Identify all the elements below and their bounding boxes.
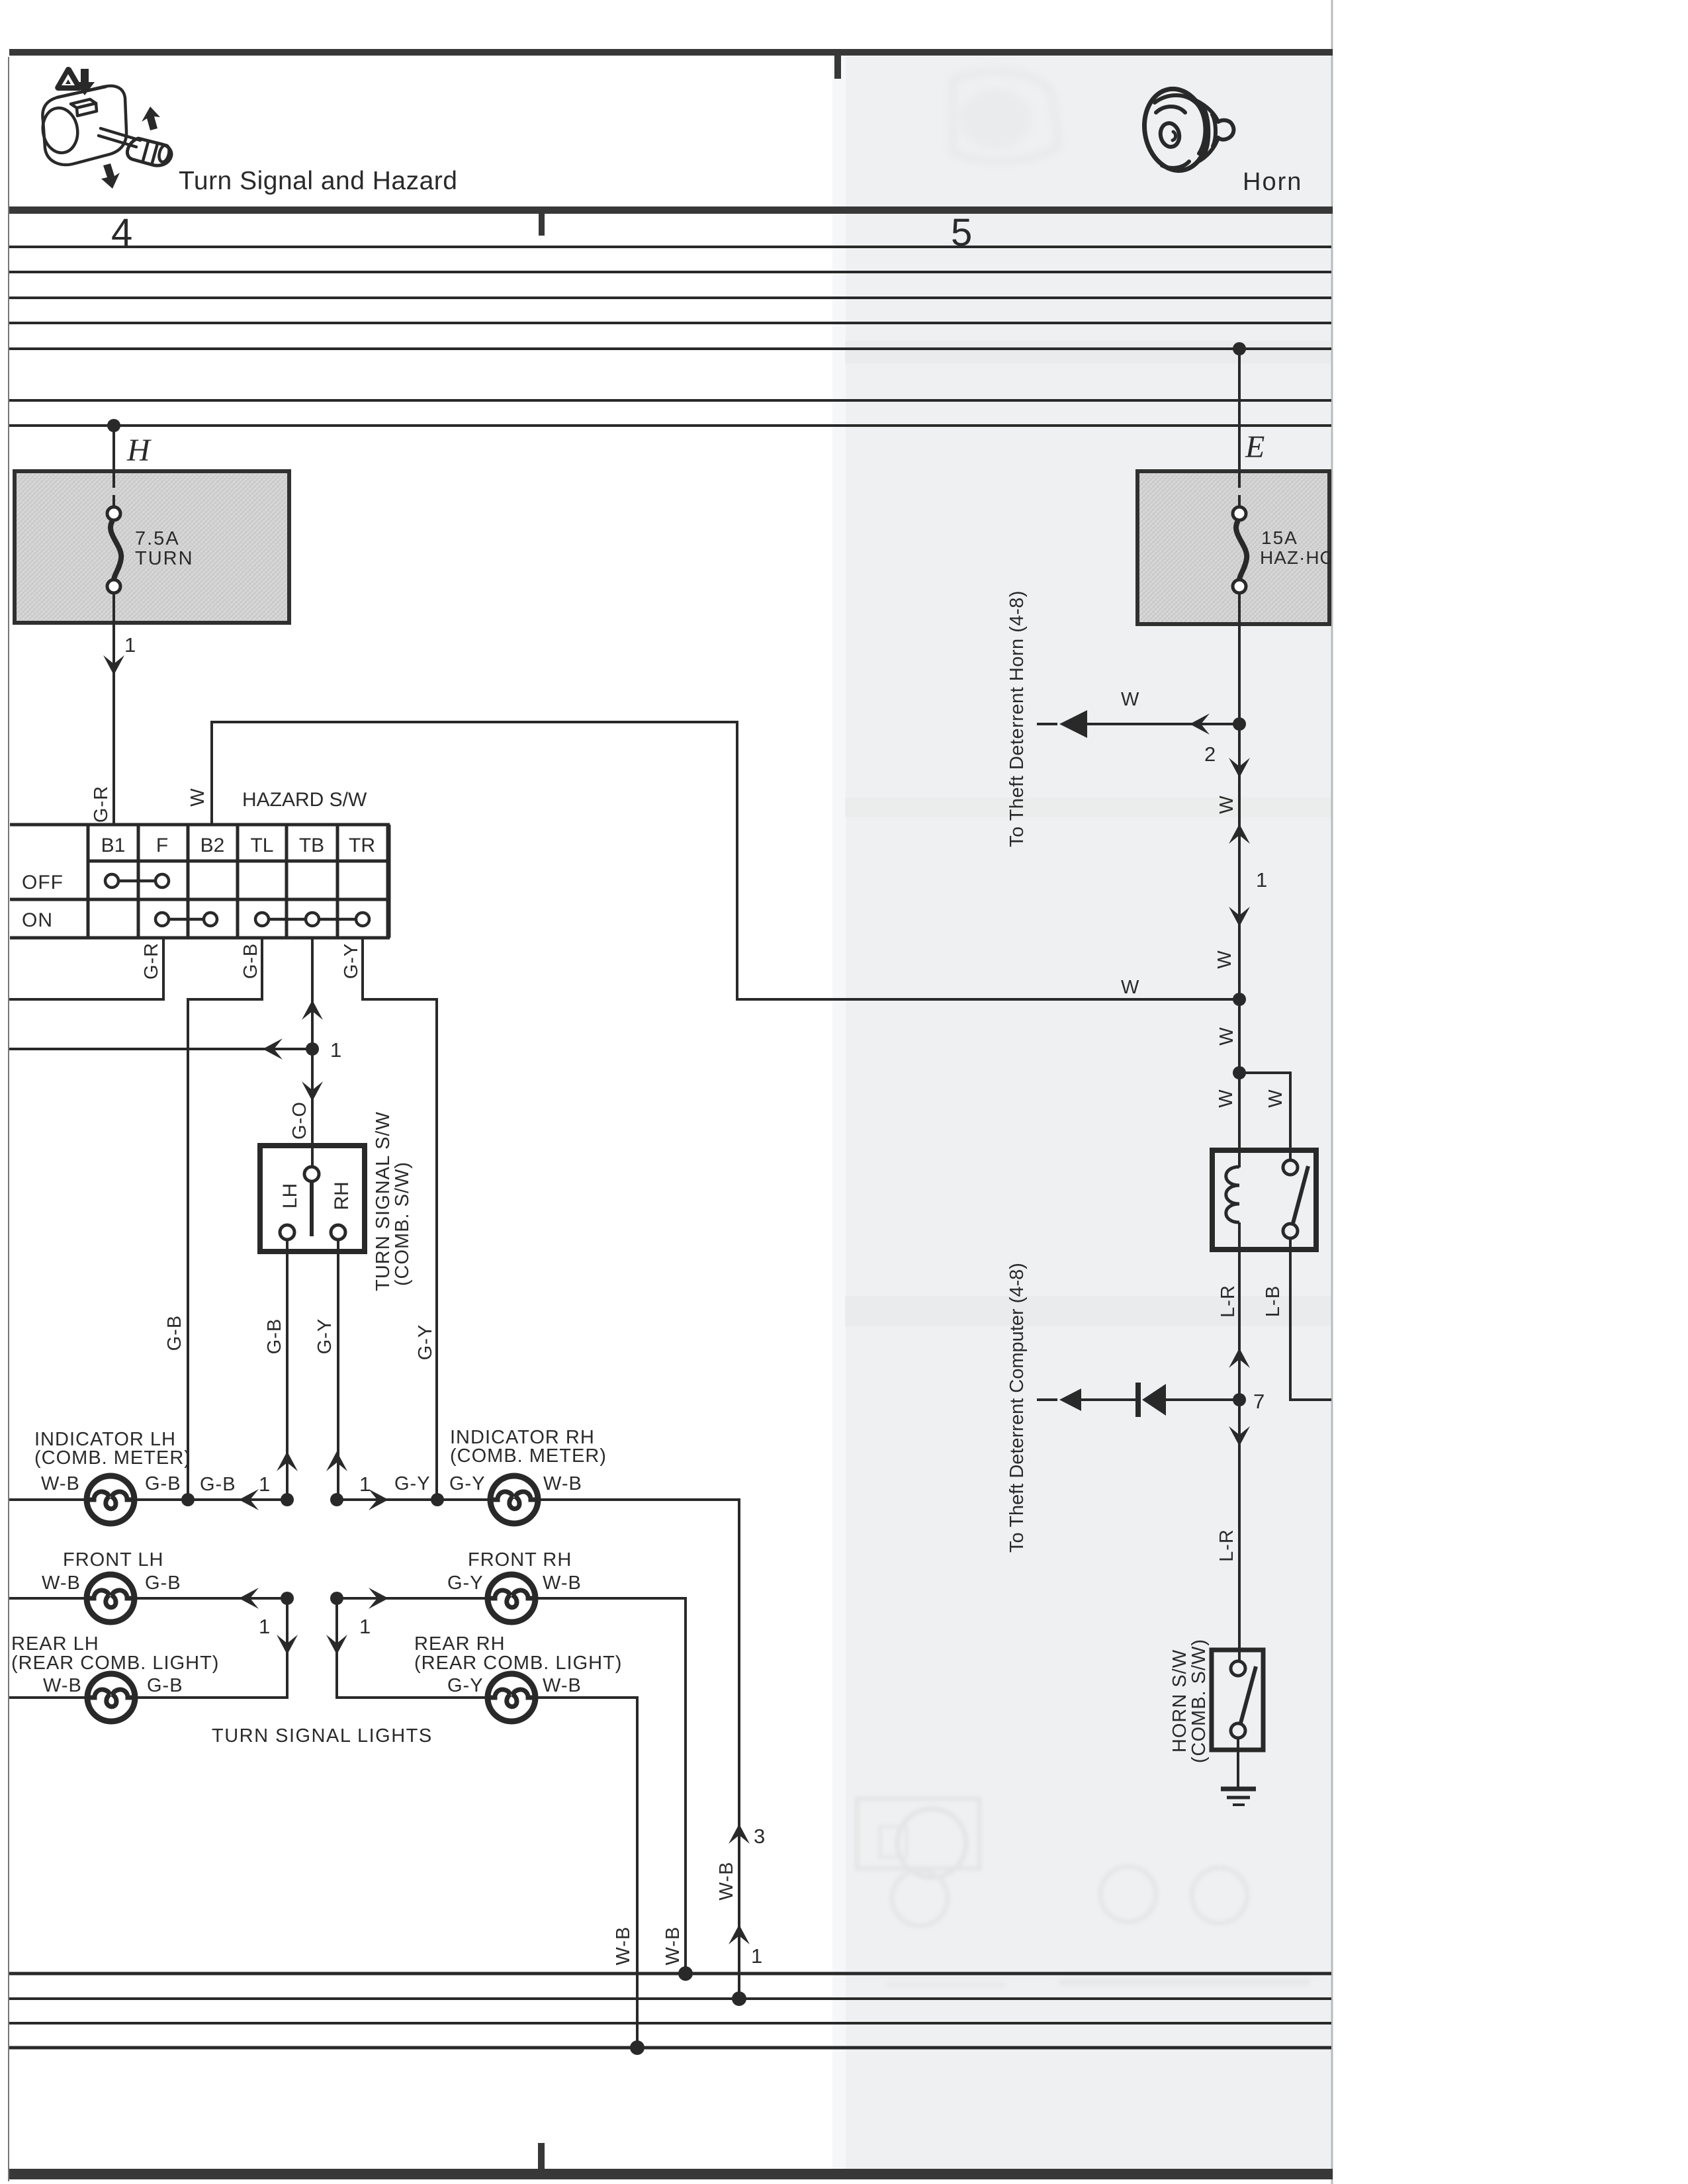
hazard switch OFF row contacts B1-F [105, 874, 169, 887]
svg-text:2: 2 [1204, 743, 1216, 766]
svg-text:TURN SIGNAL LIGHTS: TURN SIGNAL LIGHTS [212, 1725, 433, 1747]
wire node H to fuse TURN [112, 426, 115, 473]
turn signal switch RH contact [331, 1225, 345, 1240]
svg-text:REAR RH: REAR RH [414, 1633, 506, 1655]
svg-text:1: 1 [259, 1615, 270, 1638]
header bar (second rule) [9, 206, 1333, 214]
wire G-B from pin TL jogging left then down [188, 938, 262, 1500]
connector chevron up on RH feeder [326, 1451, 347, 1471]
svg-text:W: W [1265, 1089, 1286, 1108]
connector chevron down on G-R wire [103, 655, 124, 675]
tick below top bar [834, 56, 841, 79]
svg-text:TL: TL [250, 835, 273, 856]
tick above bottom bar [538, 2143, 545, 2169]
ghost bleed-through shapes [953, 71, 1059, 161]
turn signal switch box [260, 1146, 365, 1251]
connector chevron right on front RH wire [369, 1588, 388, 1609]
connector chevron up on indicator W-B riser [729, 1824, 750, 1844]
svg-text:OFF: OFF [22, 872, 64, 893]
svg-text:1: 1 [1256, 868, 1267, 891]
connector chevron left on indicator LH wire [239, 1489, 259, 1510]
junction of G-Y riser on indicator RH wire [431, 1493, 444, 1506]
junction feeding relay contact branch [1233, 1066, 1246, 1079]
wire into indicator LH lamp [9, 1498, 88, 1501]
wire G-O from junction down to turn signal switch [311, 1049, 314, 1167]
power bus line 2 [9, 271, 1331, 273]
svg-text:B1: B1 [101, 835, 126, 856]
wire front RH lamp out to W-B riser [534, 1598, 686, 1974]
lamp indicator RH [490, 1476, 538, 1524]
svg-text:7: 7 [1253, 1390, 1265, 1413]
turn signal switch lever (neutral) [310, 1182, 314, 1236]
connector chevron down on LH feeder [277, 1635, 298, 1655]
wire into front LH lamp [9, 1597, 88, 1600]
wire into rear LH lamp [9, 1696, 89, 1699]
svg-text:F: F [156, 835, 168, 856]
svg-text:G-Y: G-Y [447, 1675, 484, 1696]
svg-text:LH: LH [279, 1183, 301, 1208]
svg-text:(REAR COMB. LIGHT): (REAR COMB. LIGHT) [414, 1653, 622, 1674]
junction of RH feeder at front row [330, 1592, 343, 1605]
wire from junction to left page edge [9, 1048, 312, 1050]
svg-text:W: W [1216, 1089, 1237, 1108]
wire junction to front RH lamp [337, 1597, 489, 1600]
connector chevron down on horn feed [1229, 758, 1250, 778]
connector chevron up on G-O wire [302, 1000, 323, 1020]
svg-text:G-B: G-B [200, 1474, 236, 1495]
svg-text:H: H [126, 433, 152, 468]
svg-text:W: W [1216, 796, 1237, 814]
fuse box 15A HAZ-HORN [1137, 471, 1363, 624]
svg-text:ON: ON [22, 909, 53, 931]
wire G-B from LH contact down [286, 1240, 289, 1500]
turn signal switch common contact [304, 1167, 319, 1181]
power bus line 4 [9, 322, 1331, 324]
svg-text:W-B: W-B [613, 1927, 634, 1966]
connector chevron down on RH feeder [326, 1635, 347, 1655]
svg-text:G-B: G-B [164, 1315, 185, 1351]
horn relay contacts [1283, 1160, 1298, 1175]
horn switch contacts [1231, 1661, 1245, 1676]
page left edge [8, 57, 9, 2181]
wire fuse TURN to hazard switch pin B1 [112, 623, 115, 825]
wire indicator RH lamp out to W-B riser [537, 1500, 739, 1999]
hazard switch table frame [10, 825, 390, 938]
svg-text:W: W [1214, 950, 1235, 969]
wire diode to computer arrow [1081, 1398, 1139, 1401]
svg-text:HORN S/W: HORN S/W [1169, 1649, 1190, 1752]
turn signal switch LH contact [280, 1225, 294, 1240]
ground bus line 3 [9, 2022, 1331, 2025]
hazard switch terminal labels [101, 835, 375, 856]
power bus line 6 [9, 399, 1331, 402]
connector chevron left on junction wire [263, 1038, 283, 1060]
wire L-R relay coil to horn switch [1238, 1222, 1241, 1661]
svg-text:G-Y: G-Y [415, 1324, 436, 1361]
svg-text:To Theft Deterrent Computer (4: To Theft Deterrent Computer (4-8) [1006, 1263, 1028, 1553]
wire fuse HAZ-HORN down to relay coil [1238, 624, 1241, 1167]
node E on bus line 5 [1233, 342, 1246, 355]
junction front W-B riser on ground bus 1 [678, 1966, 693, 1981]
svg-text:HAZARD S/W: HAZARD S/W [242, 789, 367, 811]
connector chevron down on G-O wire [302, 1081, 323, 1101]
svg-text:(COMB. S/W): (COMB. S/W) [1188, 1639, 1210, 1763]
connector chevron down (2nd) on horn feed [1229, 907, 1250, 927]
svg-text:W-B: W-B [716, 1862, 737, 1901]
svg-text:G-B: G-B [264, 1318, 285, 1355]
top border bar [9, 49, 1333, 56]
svg-text:FRONT LH: FRONT LH [63, 1549, 163, 1570]
svg-text:G-O: G-O [289, 1101, 310, 1140]
lamp front LH [87, 1574, 134, 1622]
svg-text:G-Y: G-Y [447, 1572, 484, 1594]
svg-text:1: 1 [259, 1473, 270, 1496]
lamp indicator LH [87, 1476, 134, 1524]
svg-text:G-B: G-B [145, 1473, 181, 1494]
wire indicator LH to junction [133, 1498, 287, 1501]
lamp front RH [488, 1574, 535, 1622]
connector chevron left on branch [1190, 713, 1210, 735]
svg-text:RH: RH [331, 1181, 353, 1210]
svg-text:G-B: G-B [147, 1675, 183, 1696]
horn pictogram [1138, 84, 1233, 175]
horn relay coil [1226, 1167, 1239, 1222]
wire G-R from pin F down and out to left page edge [9, 938, 163, 999]
svg-text:Turn Signal and Hazard: Turn Signal and Hazard [179, 167, 457, 195]
connector chevron up on LH feeder [277, 1451, 298, 1471]
svg-text:Horn: Horn [1243, 168, 1302, 196]
svg-text:G-Y: G-Y [314, 1318, 335, 1355]
junction with hazard W wire [1233, 993, 1246, 1006]
connector chevron up (2nd) on indicator W-B riser [729, 1925, 750, 1944]
svg-text:L-R: L-R [1218, 1285, 1239, 1318]
tick below header bar [539, 214, 545, 236]
wire G-O from pin TB down to junction [311, 938, 314, 1049]
junction node 1 on G-O wire [306, 1042, 319, 1056]
wire G-Y from pin TR jogging right then down [363, 938, 437, 1500]
svg-text:G-R: G-R [91, 786, 112, 823]
junction of G-B riser on indicator LH wire [181, 1493, 195, 1506]
junction 7 to theft deterrent computer [1233, 1393, 1246, 1406]
svg-text:3: 3 [754, 1825, 765, 1848]
svg-text:W-B: W-B [42, 1572, 81, 1594]
svg-text:TB: TB [299, 835, 324, 856]
svg-text:(REAR COMB. LIGHT): (REAR COMB. LIGHT) [11, 1653, 219, 1674]
horn relay contact arm [1292, 1166, 1308, 1226]
ground bus line 2 [9, 1997, 1331, 2000]
svg-text:G-Y: G-Y [394, 1473, 431, 1494]
wire front LH to LH feeder [133, 1597, 287, 1600]
connector chevron left on front LH wire [239, 1588, 259, 1609]
svg-text:(COMB. S/W): (COMB. S/W) [392, 1161, 413, 1286]
junction rear W-B riser on ground bus 4 [630, 2040, 644, 2055]
wire node E to fuse HAZ-HORN [1238, 349, 1241, 473]
diode to theft deterrent computer [1166, 1398, 1239, 1401]
svg-text:G-Y: G-Y [449, 1473, 486, 1494]
svg-text:REAR LH: REAR LH [11, 1633, 99, 1655]
svg-text:W-B: W-B [43, 1675, 82, 1696]
connector chevron up on horn feed [1229, 824, 1250, 844]
svg-text:1: 1 [751, 1944, 762, 1968]
svg-text:G-Y: G-Y [341, 943, 362, 979]
svg-text:W: W [1121, 689, 1139, 710]
wire rear RH lamp out to W-B riser [534, 1698, 637, 2048]
lamp rear RH [488, 1674, 535, 1721]
svg-text:B2: B2 [200, 835, 225, 856]
svg-text:FRONT RH: FRONT RH [468, 1549, 572, 1570]
svg-text:L-B: L-B [1263, 1285, 1284, 1317]
horn switch arm [1240, 1666, 1256, 1725]
svg-text:(COMB. METER): (COMB. METER) [450, 1445, 607, 1467]
fuse box 7.5A TURN [15, 471, 289, 623]
page right edge [1331, 0, 1333, 2184]
ground symbol [1221, 1789, 1256, 1805]
connector chevron down on L-R wire [1229, 1426, 1250, 1446]
svg-text:1: 1 [359, 1473, 371, 1496]
svg-text:1: 1 [330, 1038, 341, 1062]
arrow to theft deterrent horn [1059, 710, 1087, 738]
horn relay box [1212, 1150, 1316, 1250]
svg-text:(COMB. METER): (COMB. METER) [34, 1447, 191, 1469]
wire L-B relay contact down and out right [1290, 1238, 1331, 1400]
bottom border bar [9, 2169, 1333, 2179]
svg-text:E: E [1245, 430, 1265, 465]
svg-text:W-B: W-B [543, 1675, 582, 1696]
svg-text:7.5A: 7.5A [135, 528, 180, 549]
svg-text:W: W [1121, 977, 1139, 998]
lamp rear LH [87, 1674, 135, 1721]
svg-text:TR: TR [349, 835, 375, 856]
wire W from pin B2 up, over and down to horn feed [212, 722, 1235, 999]
svg-text:15A: 15A [1261, 527, 1298, 548]
junction of LH feeder at front row [281, 1592, 294, 1605]
junction to theft deterrent horn branch [1233, 717, 1246, 731]
power bus line 5 [9, 347, 1331, 350]
ground bus line 4 [9, 2046, 1331, 2050]
wire RH feeder corner to rear RH lamp [337, 1598, 489, 1698]
ground bus line 1 [9, 1972, 1331, 1976]
svg-text:W-B: W-B [662, 1927, 684, 1966]
svg-text:L-R: L-R [1216, 1529, 1237, 1562]
power bus line 1 [9, 246, 1331, 248]
svg-text:W-B: W-B [41, 1473, 80, 1494]
svg-text:W-B: W-B [543, 1572, 582, 1594]
svg-text:W: W [1216, 1027, 1237, 1046]
connector chevron right on indicator RH wire [369, 1489, 388, 1510]
junction of RH feeder at indicator row [330, 1493, 343, 1506]
horn switch box [1212, 1650, 1263, 1750]
svg-text:W-B: W-B [543, 1473, 582, 1494]
turn signal / hazard combination switch pictogram [40, 86, 171, 165]
junction of LH feeder at indicator row [281, 1493, 294, 1506]
svg-text:1: 1 [124, 633, 136, 657]
power bus line 3 [9, 296, 1331, 299]
wire rear LH lamp to LH feeder corner [134, 1598, 287, 1698]
hazard switch ON row contacts F-B2 and TL-TB-TR [155, 913, 369, 926]
power bus line 7 [9, 424, 1331, 427]
wire horn switch to ground [1237, 1738, 1239, 1789]
junction indicator W-B riser on ground bus 2 [732, 1991, 746, 2006]
svg-text:G-R: G-R [141, 942, 162, 979]
wire branch to relay contact [1239, 1073, 1290, 1160]
svg-text:1: 1 [359, 1615, 371, 1638]
node H on bus line 7 [107, 419, 120, 432]
svg-text:G-B: G-B [145, 1572, 181, 1594]
svg-text:G-B: G-B [240, 943, 261, 979]
wire G-Y from RH contact down [337, 1240, 339, 1500]
svg-text:TURN: TURN [135, 548, 194, 569]
svg-text:To Theft Deterrent Horn (4-8): To Theft Deterrent Horn (4-8) [1006, 590, 1028, 847]
connector chevron up on L-R wire [1229, 1348, 1250, 1368]
wire W branch to theft deterrent horn [1087, 723, 1239, 725]
svg-text:TURN SIGNAL S/W: TURN SIGNAL S/W [373, 1111, 394, 1291]
arrow to theft deterrent computer [1059, 1388, 1081, 1411]
svg-text:W: W [187, 788, 208, 807]
wire junction to indicator RH lamp [337, 1498, 492, 1501]
scan bleed-through tint on right half of page [845, 56, 1332, 2169]
